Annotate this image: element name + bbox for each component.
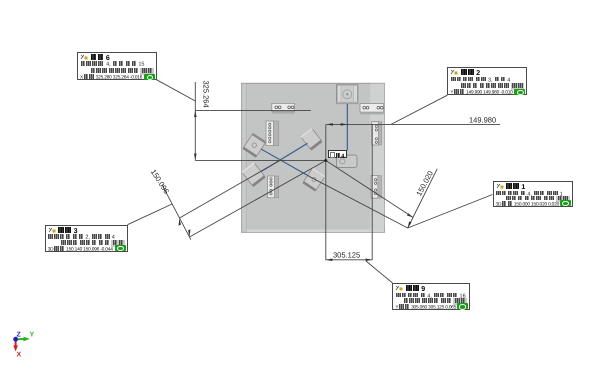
callout box distance 6 [77,52,157,81]
dimension line 149.980 [326,123,500,125]
callout box distance 2 [447,67,527,96]
text 305.125 [333,250,360,259]
blue sketch line vertical (line3) [346,104,348,151]
rotated text 150.096 [149,168,171,196]
svg-text:Y: Y [30,332,35,339]
extension E2 from point4 down-left [190,161,326,238]
svg-text:150.096: 150.096 [149,168,171,196]
svg-text:Z: Z [17,332,22,339]
dimension line 305.125 [326,259,372,261]
plate bottom bevel [242,230,384,233]
arrow up at y110 [194,110,197,117]
arrow left tip [326,123,333,126]
arrow right [366,259,373,262]
svg-text:149.980: 149.980 [469,116,496,125]
point 4 dot [324,159,327,162]
svg-text:X: X [17,352,22,359]
measure line A from point4 to 150.020 dim [326,161,413,218]
leader from box distance9 [366,261,392,283]
plate left bevel [242,84,246,232]
leader from box distance1 [408,195,493,229]
parallel line B to corner [310,177,408,228]
text 149.980 [469,116,496,125]
angled block upper-right [300,128,322,151]
vertical dimension line 325.264 [194,82,196,160]
blue sketch line A (upper-left to lower-right) [261,149,310,177]
arrow down at y160 [194,154,197,161]
top-right bar with holes [360,104,384,115]
extension E1 from crossing down-left [180,160,281,218]
horizontal extension line y110.6 [195,110,310,112]
blue sketch line B (lower-left to upper-right) [262,143,308,171]
plate right bevel [370,84,384,230]
dimension line 60deg 150.096 [162,185,191,240]
mid-right vertical bar [372,122,382,145]
top-left bar with holes [272,103,295,113]
rotated text 150.020 [414,169,435,197]
angled block lower-left [241,162,265,187]
svg-text:325.264: 325.264 [202,81,211,108]
point 4 label [328,150,348,158]
leader from box distance6 [157,80,196,101]
rotated text 325.264 [202,81,211,108]
arrow on line A [407,213,413,217]
plate main face [242,83,385,232]
arrow left [326,259,333,262]
leader from box distance2 [391,95,447,124]
arrow lower on 60deg line [188,229,190,237]
lower-right vertical bar [371,176,381,199]
callout box distance 9 [392,283,470,311]
svg-text:305.125: 305.125 [333,250,360,259]
arrow at corner [408,221,412,228]
upper-left vertical bar [266,121,279,146]
horizontal extension line y160.4 to point4 [195,159,325,161]
leader from box distance3 [128,204,173,225]
callout box distance 3 [45,225,128,253]
arrow right tip at blue line [341,123,348,126]
top square block U1 [337,85,358,104]
angled block lower-right [303,168,326,192]
dimension line 62deg 150.020 [408,169,438,228]
vertical extension from point4 down [325,124,327,260]
angled block upper-left [242,133,266,158]
center boss behind point4 label [337,155,358,168]
coordinate triad [13,332,34,359]
lower-left vertical bar [268,176,279,198]
callout box distance 1 [493,181,573,207]
arrow upper on 60deg line [179,218,181,226]
vertical extension right x372 [371,124,373,260]
